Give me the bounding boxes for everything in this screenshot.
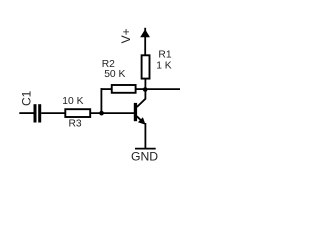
resistor R2 bbox=[112, 85, 136, 93]
node A (base junction dot) bbox=[99, 111, 104, 116]
node B (collector junction dot) bbox=[143, 87, 148, 92]
transistor Q1 collector bbox=[137, 89, 146, 107]
ground bbox=[131, 149, 158, 164]
svg-text:C1: C1 bbox=[19, 90, 33, 106]
wire R2 right to node B bbox=[136, 88, 146, 90]
svg-text:GND: GND bbox=[131, 149, 158, 162]
svg-text:R1: R1 bbox=[158, 49, 171, 60]
svg-text:10 K: 10 K bbox=[62, 96, 83, 107]
svg-text:V+: V+ bbox=[119, 28, 133, 43]
svg-text:1 K: 1 K bbox=[156, 60, 172, 71]
capacitor C1 bbox=[34, 104, 42, 122]
wire input left bbox=[19, 112, 34, 114]
wire junction A up to R2 level bbox=[100, 88, 102, 113]
wire R1 bottom to node B bbox=[144, 79, 146, 89]
svg-text:R3: R3 bbox=[69, 119, 82, 130]
wire to R2 left bbox=[101, 88, 113, 90]
wire output to right edge bbox=[145, 88, 180, 90]
svg-text:50 K: 50 K bbox=[104, 69, 125, 80]
wire R3 to base junction and transistor base bbox=[91, 112, 136, 114]
power V+ arrow bbox=[140, 28, 150, 55]
resistor R3 bbox=[65, 109, 90, 117]
transistor Q1 base bar bbox=[134, 103, 137, 121]
transistor Q1 emitter bbox=[137, 116, 146, 149]
wire C1 to R3 bbox=[41, 112, 66, 114]
resistor R1 bbox=[142, 55, 150, 78]
